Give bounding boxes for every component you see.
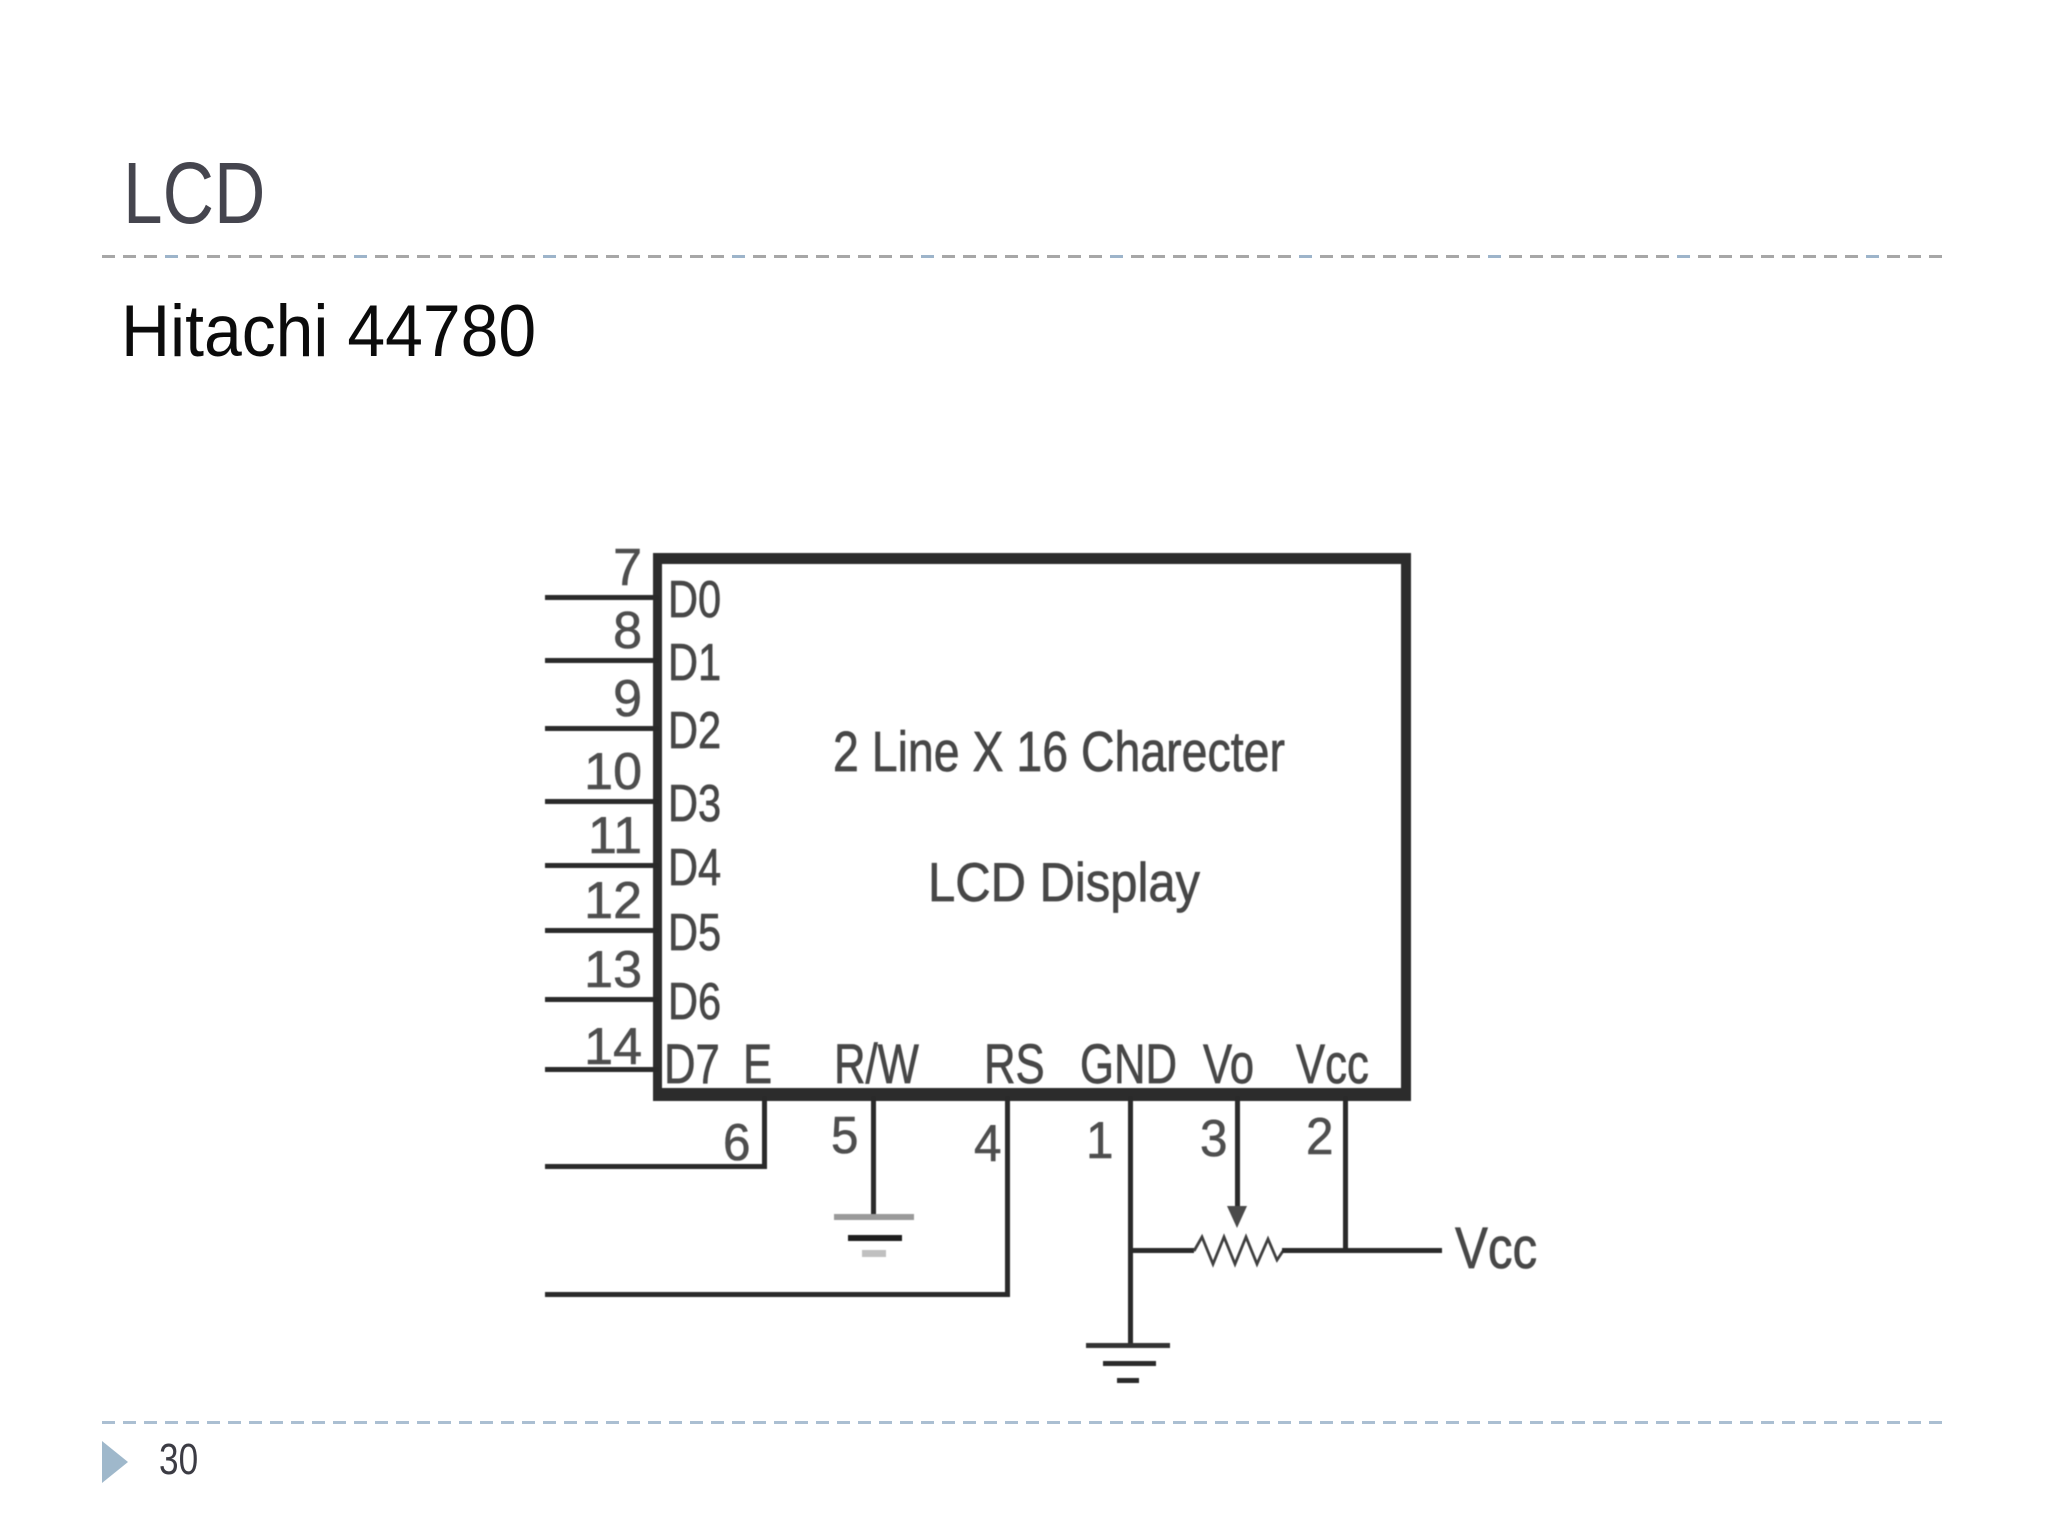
wire D7 (pin 14) — [545, 1067, 659, 1072]
pin number 13 — [502, 944, 642, 996]
subtitle — [121, 295, 567, 368]
pin 5 stub (R/W) — [871, 1096, 876, 1217]
wire potentiometer to Vcc rail — [1282, 1248, 1442, 1253]
bottom dashed divider — [102, 1421, 1946, 1424]
pin number 3 — [1200, 1113, 1229, 1165]
ground symbol at R/W (pin 5) — [834, 1214, 914, 1220]
pin number 5 — [831, 1110, 860, 1162]
pin label D6 — [668, 976, 734, 1028]
pin label D3 — [668, 778, 734, 830]
wire D5 (pin 12) — [545, 928, 659, 933]
ground symbol at GND (pin 1) — [1086, 1343, 1170, 1348]
wire D0 (pin 7) — [545, 595, 659, 600]
top dashed divider — [102, 255, 1946, 258]
module text: LCD Display — [928, 855, 1234, 910]
pin label D7 — [664, 1036, 736, 1092]
wire D6 (pin 13) — [545, 997, 659, 1002]
wire GND node to potentiometer R1 — [1130, 1248, 1194, 1253]
pin label D1 — [668, 637, 734, 689]
LCD module body U1 — [653, 553, 1411, 1101]
pin label Vcc — [1296, 1036, 1389, 1092]
pin number 9 — [502, 673, 642, 725]
pin number 7 — [502, 542, 642, 594]
pin number 1 — [1086, 1115, 1115, 1167]
pin label D2 — [668, 705, 734, 757]
pin label R/W — [834, 1036, 943, 1092]
pin number 8 — [502, 605, 642, 657]
page number 30 — [159, 1438, 208, 1482]
pin number 12 — [502, 875, 642, 927]
pin 3 stub (Vo) — [1235, 1096, 1240, 1206]
pin 6 stub (E) — [762, 1096, 767, 1168]
pin label Vo — [1203, 1036, 1268, 1092]
wire E to left bus — [545, 1164, 767, 1169]
pin label D4 — [668, 842, 734, 894]
slide title — [123, 150, 297, 237]
pin label D0 — [668, 574, 734, 626]
footer slide-number bullet — [101, 1441, 129, 1483]
pin label D5 — [668, 907, 734, 959]
pin 4 stub (RS) — [1005, 1096, 1010, 1296]
pin number 6 — [723, 1117, 752, 1169]
pin label E — [743, 1036, 780, 1092]
pin number 11 — [502, 810, 642, 862]
pin 2 stub (Vcc) — [1343, 1096, 1348, 1252]
net label Vcc — [1455, 1220, 1552, 1278]
pin number 14 — [502, 1021, 642, 1073]
potentiometer R1 (zigzag) with wiper arrow from pin 3 — [1180, 1190, 1300, 1280]
pin number 4 — [974, 1118, 1003, 1170]
pin number 10 — [502, 746, 642, 798]
pin 1 stub (GND) — [1128, 1096, 1133, 1347]
wire D3 (pin 10) — [545, 799, 659, 804]
wire RS to left bus — [545, 1292, 1010, 1297]
pin label RS — [984, 1036, 1062, 1092]
pin label GND — [1080, 1036, 1204, 1092]
wire D1 (pin 8) — [545, 658, 659, 663]
wire D4 (pin 11) — [545, 863, 659, 868]
pin number 2 — [1306, 1111, 1335, 1163]
module text: 2 Line X 16 Charecter — [833, 724, 1388, 781]
wire D2 (pin 9) — [545, 726, 659, 731]
